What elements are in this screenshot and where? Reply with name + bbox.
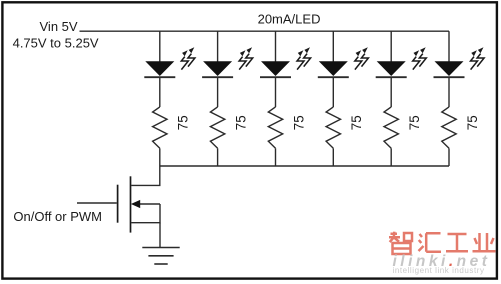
transistor Q1 channel bar — [130, 176, 132, 232]
svg-text:75: 75 — [349, 115, 364, 130]
svg-text:75: 75 — [234, 115, 249, 130]
svg-text:On/Off or PWM: On/Off or PWM — [13, 209, 102, 224]
业 — [473, 233, 496, 251]
svg-text:intelligent link industry: intelligent link industry — [393, 266, 485, 275]
LED D1 branch with resistor — [144, 31, 175, 166]
LED D5 branch with resistor — [376, 31, 407, 166]
transistor Q1 source stub — [131, 204, 160, 223]
LED D4 emission arrows — [355, 47, 369, 69]
LED D1 emission arrows — [181, 47, 195, 69]
wire source to ground — [159, 223, 161, 248]
svg-text:Vin 5V: Vin 5V — [40, 19, 78, 34]
LED D3 emission arrows — [297, 47, 311, 69]
svg-text:75: 75 — [407, 115, 422, 130]
LED D5 emission arrows — [413, 47, 427, 69]
svg-text:75: 75 — [291, 115, 306, 130]
svg-text:4.75V to 5.25V: 4.75V to 5.25V — [13, 36, 99, 51]
svg-text:75: 75 — [176, 115, 191, 130]
LED D6 emission arrows — [471, 47, 485, 69]
wire top supply rail — [80, 30, 450, 32]
wire bottom common rail — [160, 165, 449, 167]
LED D2 branch with resistor — [202, 31, 233, 166]
watermark logo 智汇工业 — [389, 232, 496, 254]
LED D6 branch with resistor — [434, 31, 465, 166]
transistor Q1 gate bar — [117, 185, 119, 223]
LED D2 emission arrows — [239, 47, 253, 69]
wire drain drop from rail — [131, 166, 160, 185]
transistor Q1 body stub with arrow — [138, 203, 160, 205]
LED D4 branch with resistor — [318, 31, 349, 166]
汇 — [419, 233, 442, 252]
svg-text:75: 75 — [465, 115, 480, 130]
工 — [446, 234, 468, 251]
ground — [142, 248, 179, 265]
wire gate lead — [77, 202, 117, 204]
LED D3 branch with resistor — [260, 31, 291, 166]
svg-text:20mA/LED: 20mA/LED — [258, 11, 321, 26]
智 — [389, 232, 412, 254]
